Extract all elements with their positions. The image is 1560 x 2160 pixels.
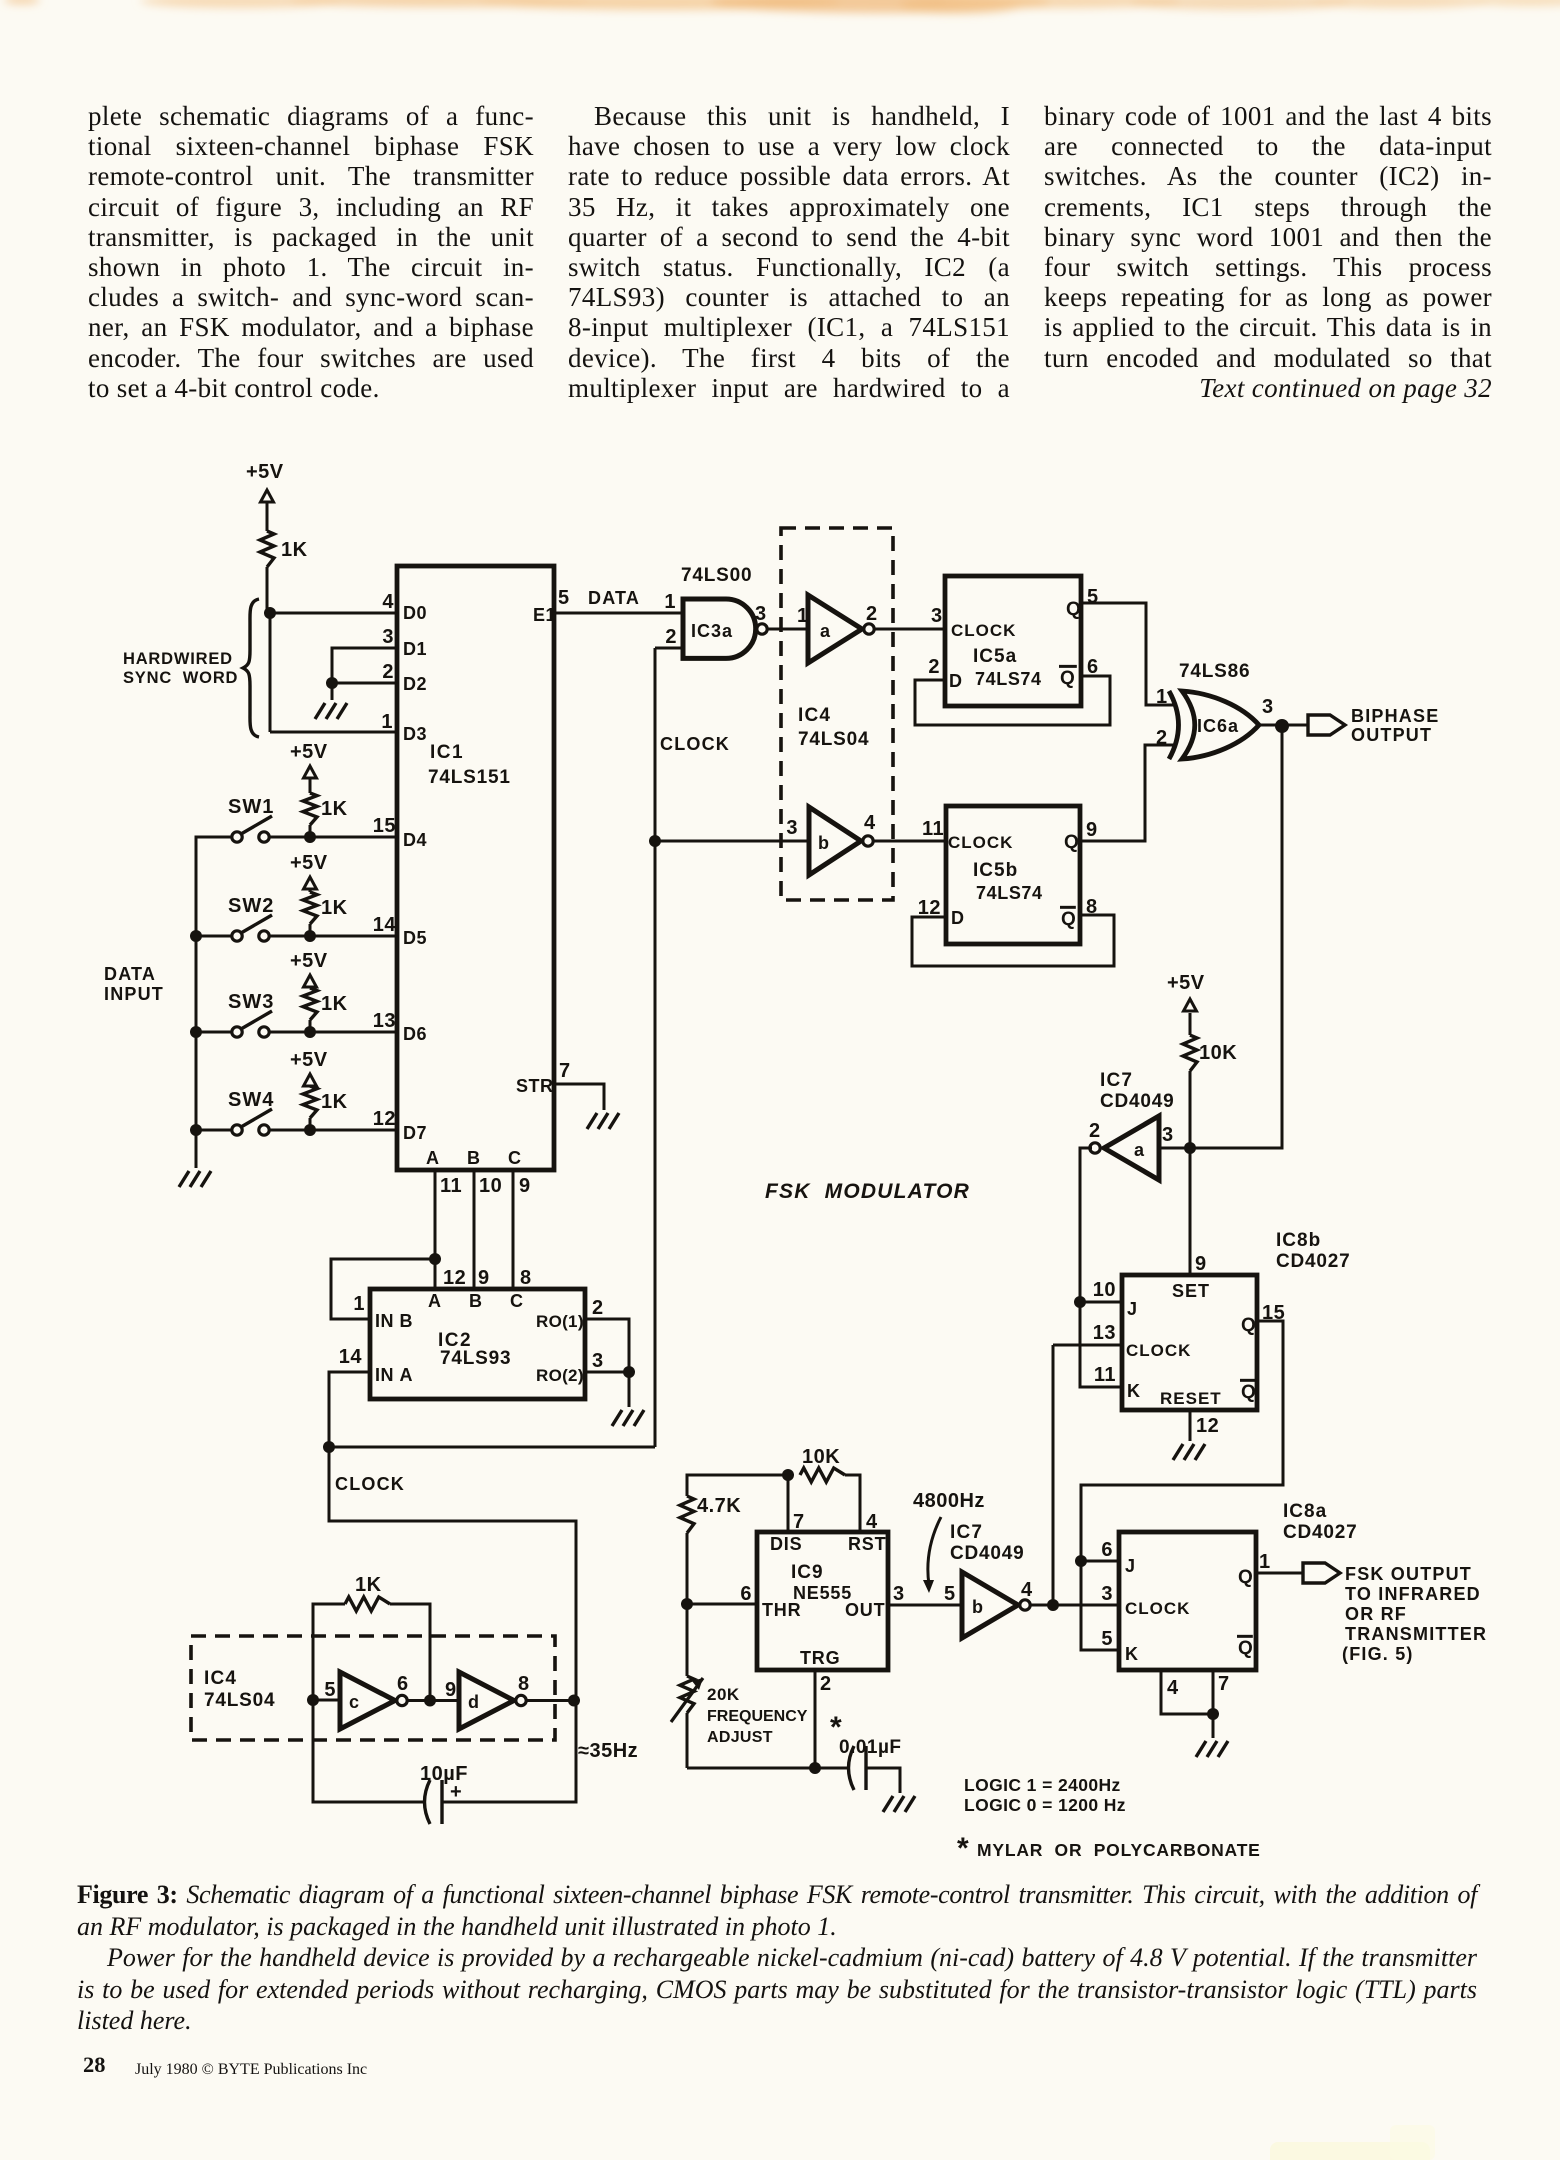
- svg-text:RO(2): RO(2): [536, 1366, 584, 1385]
- svg-text:7: 7: [559, 1060, 571, 1082]
- node IC8a J junction: [1075, 1555, 1087, 1567]
- xor gate IC6a: [1169, 691, 1259, 759]
- wire pot to TRG node: [687, 1767, 815, 1770]
- svg-text:SYNC WORD: SYNC WORD: [123, 669, 238, 687]
- svg-text:+: +: [450, 1781, 462, 1803]
- svg-text:IC9: IC9: [791, 1562, 824, 1583]
- flip-flop IC8a CD4027: [1119, 1532, 1256, 1670]
- svg-text:IC4: IC4: [798, 705, 831, 726]
- svg-text:4: 4: [1021, 1579, 1033, 1601]
- wire 10K to RST pin 4: [845, 1475, 860, 1532]
- label 74LS00: [681, 565, 752, 586]
- svg-text:74LS04: 74LS04: [204, 1690, 275, 1711]
- pin number 6 (IC5a Qbar): [1087, 656, 1099, 678]
- svg-text:11: 11: [922, 818, 944, 840]
- svg-text:OR RF: OR RF: [1345, 1604, 1407, 1624]
- wire IC8a pin 4 to ground: [1161, 1670, 1213, 1714]
- svg-text:1K: 1K: [321, 897, 348, 919]
- node clock junction at IN A: [323, 1441, 335, 1453]
- svg-text:2: 2: [928, 656, 940, 678]
- pin number 8 (IC2 C): [520, 1267, 532, 1289]
- pin number 5 (IC7b): [944, 1583, 956, 1605]
- node 10K-DIS junction: [782, 1469, 794, 1481]
- svg-text:TRANSMITTER: TRANSMITTER: [1345, 1624, 1487, 1644]
- svg-text:TRG: TRG: [800, 1648, 840, 1668]
- pin number 9 (IC2 B): [478, 1267, 490, 1289]
- wire IC2 IN A to clock node: [329, 1372, 370, 1447]
- label IC7 CD4049: [1100, 1070, 1175, 1112]
- page footer: [83, 2052, 106, 2078]
- svg-text:5: 5: [944, 1583, 956, 1605]
- pin number 1 (IC6a): [1156, 686, 1168, 708]
- svg-text:CD4027: CD4027: [1276, 1251, 1351, 1272]
- svg-text:4: 4: [864, 812, 876, 834]
- pin number 7 (IC9 DIS): [793, 1511, 805, 1533]
- svg-text:FREQUENCY: FREQUENCY: [707, 1708, 808, 1725]
- pin number 8 (IC5b Qbar): [1086, 896, 1098, 918]
- label DATA: [588, 588, 640, 608]
- wire IC4b out to IC5b clock: [873, 840, 946, 843]
- node bus SW3: [190, 1026, 202, 1038]
- ground (sync word D1 D2): [315, 703, 347, 719]
- svg-text:74LS00: 74LS00: [681, 565, 752, 586]
- wire node to IC1 pin 4 D0: [270, 612, 397, 615]
- resistor 1K pull-up for SW3: [303, 988, 348, 1032]
- connector FSK output flag: [1303, 1563, 1340, 1583]
- wire IC3a out to IC4a: [767, 628, 808, 631]
- wire RO(2) pin 3 to ground: [585, 1372, 629, 1407]
- node clock to FSK flip-flop branch: [649, 835, 661, 847]
- wire inverter c to d: [407, 1699, 459, 1702]
- node IC7a input junction: [1184, 1142, 1196, 1154]
- label FSK OUTPUT TO INFRARED OR RF TRANSMITTER (FIG. 5): [1342, 1564, 1487, 1664]
- ground (IC8b reset): [1173, 1444, 1205, 1460]
- node TRG junction: [809, 1762, 821, 1774]
- wire IC6a output: [1258, 724, 1308, 727]
- svg-text:IC7: IC7: [1100, 1070, 1133, 1091]
- svg-text:STR: STR: [516, 1076, 554, 1096]
- svg-text:D: D: [951, 908, 965, 928]
- pin number 2 (IC2 RO1): [592, 1297, 604, 1319]
- pin number 12 (IC8b RESET): [1196, 1415, 1219, 1437]
- resistor 1K pull-up for SW2: [303, 892, 348, 936]
- pin number 5 (IC5a Q): [1087, 586, 1099, 608]
- svg-text:IC8b: IC8b: [1276, 1230, 1321, 1251]
- svg-text:Q: Q: [1238, 1638, 1253, 1659]
- svg-text:15: 15: [373, 815, 396, 837]
- pin number 15 (IC1): [373, 815, 396, 837]
- wire SET pin 9 from node: [1189, 1148, 1192, 1275]
- svg-text:IC8a: IC8a: [1283, 1501, 1327, 1522]
- svg-text:10: 10: [1093, 1279, 1116, 1301]
- label 4800Hz: [913, 1490, 985, 1512]
- inverter IC4d: [459, 1672, 526, 1729]
- pin number 3 (IC2 RO2): [592, 1350, 604, 1372]
- label MYLAR OR POLYCARBONATE: [957, 1832, 1261, 1865]
- figure caption: [77, 1879, 1477, 2037]
- pin number 3 (IC7a): [1162, 1124, 1174, 1146]
- multiplexer IC1 74LS151: [397, 566, 556, 1170]
- svg-text:Q: Q: [1060, 668, 1075, 689]
- pin number 5 (IC8a K): [1101, 1628, 1113, 1650]
- svg-text:FSK OUTPUT: FSK OUTPUT: [1345, 1564, 1472, 1584]
- node IC8a ground junction: [1207, 1708, 1219, 1720]
- article text: column 3: [1044, 101, 1492, 403]
- pin number 1 (IC1 D3): [381, 711, 393, 733]
- node A line to IN B tap: [429, 1253, 441, 1265]
- wire biphase feedback down: [1190, 726, 1282, 1148]
- svg-text:74LS74: 74LS74: [976, 883, 1043, 903]
- wire address B IC1 pin 10 to IC2 pin 9: [473, 1170, 476, 1289]
- svg-text:1: 1: [353, 1293, 365, 1315]
- wire sync-word high rail down to D3: [269, 613, 272, 732]
- power +5V symbol (top left): [246, 461, 284, 531]
- pin number 4 (IC8a): [1167, 1677, 1179, 1699]
- svg-text:10K: 10K: [802, 1446, 840, 1468]
- timer IC9 NE555: [757, 1532, 888, 1670]
- pin number 3 (IC1 D1): [382, 626, 394, 648]
- wire address C IC1 pin 9 to IC2 pin 8: [512, 1170, 515, 1289]
- svg-text:4.7K: 4.7K: [697, 1495, 741, 1517]
- svg-text:74LS04: 74LS04: [798, 729, 869, 750]
- svg-text:DIS: DIS: [770, 1534, 802, 1554]
- node bus SW2: [190, 930, 202, 942]
- svg-text:11: 11: [1094, 1364, 1116, 1386]
- svg-text:b: b: [972, 1597, 984, 1617]
- svg-text:3: 3: [755, 603, 767, 625]
- wire IC5b D to Qbar loop: [912, 915, 1114, 966]
- node IC8b J junction: [1074, 1296, 1086, 1308]
- svg-text:*: *: [957, 1832, 969, 1865]
- svg-text:Q: Q: [1238, 1567, 1253, 1588]
- switch SW3: [196, 991, 397, 1037]
- pin number 2 (IC6a): [1156, 727, 1168, 749]
- svg-text:5: 5: [558, 587, 570, 609]
- svg-text:2: 2: [820, 1673, 832, 1695]
- node between c and d: [424, 1695, 436, 1707]
- wire OUT pin 3 to IC7b: [888, 1604, 962, 1607]
- pin number 1 (IC2 IN B): [353, 1293, 365, 1315]
- node D0HI junction: [264, 607, 276, 619]
- wire IC8a J pin 6: [1081, 1560, 1119, 1563]
- inverter IC4b: [809, 807, 873, 875]
- svg-text:K: K: [1125, 1644, 1139, 1664]
- wire 4.7K top leg: [687, 1475, 788, 1496]
- svg-text:1K: 1K: [321, 993, 348, 1015]
- svg-text:c: c: [349, 1692, 360, 1712]
- svg-text:1: 1: [664, 591, 676, 613]
- svg-text:6: 6: [1101, 1539, 1113, 1561]
- svg-text:D5: D5: [403, 928, 427, 948]
- pin number 8 (IC4d): [518, 1673, 530, 1695]
- svg-text:RESET: RESET: [1160, 1389, 1222, 1408]
- svg-text:CD4027: CD4027: [1283, 1522, 1358, 1543]
- svg-text:3: 3: [1101, 1583, 1113, 1605]
- resistor 1K feedback: [345, 1574, 390, 1611]
- svg-text:LOGIC 1 = 2400Hz: LOGIC 1 = 2400Hz: [964, 1775, 1121, 1795]
- svg-text:SET: SET: [1172, 1281, 1210, 1301]
- wire STR pin 7 to ground: [554, 1084, 604, 1110]
- svg-text:1K: 1K: [321, 798, 348, 820]
- pin number 3 (IC8a CLOCK): [1101, 1583, 1113, 1605]
- ground (STR): [587, 1113, 619, 1129]
- node SW2 pull-up junction: [304, 930, 316, 942]
- svg-text:D0: D0: [403, 603, 427, 623]
- svg-text:NE555: NE555: [793, 1583, 852, 1603]
- pin number 6 (IC9 THR): [740, 1583, 752, 1605]
- nand gate IC3a: [683, 599, 767, 658]
- svg-text:+5V: +5V: [290, 741, 328, 763]
- svg-text:D1: D1: [403, 639, 427, 659]
- pin number 4 (IC1 D0): [382, 591, 394, 613]
- wire IC8b J pin 10: [1080, 1301, 1122, 1304]
- inverter IC7a (points left): [1090, 1116, 1159, 1180]
- pin number 3 (IC4b): [786, 817, 798, 839]
- inverter IC7b: [962, 1572, 1030, 1638]
- svg-text:CD4049: CD4049: [950, 1543, 1025, 1564]
- wire IC8b Q to IC8a J: [1081, 1321, 1283, 1561]
- pin number 1 (IC3a): [664, 591, 676, 613]
- article text: column 2: [568, 101, 1010, 403]
- label IC8a CD4027: [1283, 1501, 1358, 1543]
- wire E1 DATA output to IC3a pin 1: [554, 612, 683, 615]
- svg-text:2: 2: [1156, 727, 1168, 749]
- svg-text:4: 4: [382, 591, 394, 613]
- svg-text:THR: THR: [762, 1600, 801, 1620]
- svg-text:CLOCK: CLOCK: [660, 734, 730, 754]
- svg-text:11: 11: [440, 1175, 462, 1197]
- pin number 1 (IC4a): [797, 605, 809, 627]
- svg-text:IC5a: IC5a: [973, 646, 1017, 667]
- svg-text:+5V: +5V: [290, 852, 328, 874]
- svg-text:74LS74: 74LS74: [975, 669, 1042, 689]
- svg-text:CLOCK: CLOCK: [948, 833, 1013, 852]
- svg-text:3: 3: [592, 1350, 604, 1372]
- svg-text:E1: E1: [533, 605, 556, 625]
- svg-text:14: 14: [373, 914, 397, 936]
- resistor R 4.7K: [680, 1495, 741, 1604]
- svg-text:J: J: [1125, 1556, 1136, 1576]
- wire IC1 pin 2 D2 to ground stub: [332, 682, 397, 685]
- pin number 5 (IC4c): [324, 1679, 336, 1701]
- pin number 4 (IC7b): [1021, 1579, 1033, 1601]
- label FSK MODULATOR: [765, 1180, 970, 1203]
- node THR junction: [681, 1598, 693, 1610]
- label CLOCK (oscillator): [335, 1474, 405, 1494]
- wire IC8b clock pin 13: [1053, 1344, 1122, 1347]
- svg-text:OUT: OUT: [845, 1600, 885, 1620]
- pin number 9 (IC1 C): [519, 1175, 531, 1197]
- label SYNC WORD: [123, 669, 238, 687]
- pin number 2 (IC3a): [665, 626, 677, 648]
- wire IC8b K tie to J: [1080, 1302, 1122, 1387]
- inverter IC4c: [340, 1672, 407, 1729]
- node SW1 pull-up junction: [304, 831, 316, 843]
- power +5V for SW1: [290, 741, 328, 793]
- svg-text:10: 10: [479, 1175, 502, 1197]
- label 20K FREQUENCY ADJUST: [707, 1685, 808, 1746]
- svg-text:12: 12: [443, 1267, 466, 1289]
- pin number 2 (IC7a): [1089, 1120, 1101, 1142]
- resistor 1K pull-up for SW1: [303, 793, 348, 837]
- wire 10uF loop right: [442, 1701, 576, 1803]
- label LOGIC 1 = 2400Hz: [964, 1775, 1121, 1795]
- pin number 2 (IC9 TRG): [820, 1673, 832, 1695]
- wire IC7b out to IC8a clock: [1030, 1604, 1119, 1607]
- svg-text:IN B: IN B: [375, 1311, 413, 1331]
- pin number 14 (IC1): [373, 914, 397, 936]
- svg-text:9: 9: [445, 1679, 457, 1701]
- svg-text:3: 3: [893, 1583, 905, 1605]
- resistor 1K pull-up for SW4: [303, 1086, 348, 1130]
- flip-flop IC5a 74LS74: [945, 576, 1081, 706]
- svg-text:1: 1: [1156, 686, 1168, 708]
- svg-text:A: A: [426, 1148, 440, 1168]
- resistor R 10K (555): [800, 1446, 845, 1482]
- svg-text:ADJUST: ADJUST: [707, 1729, 773, 1746]
- svg-text:4: 4: [1167, 1677, 1179, 1699]
- wire osc input node to inverter c: [313, 1699, 340, 1702]
- label DATA INPUT: [104, 964, 164, 1004]
- svg-text:IC7: IC7: [950, 1522, 983, 1543]
- svg-text:3: 3: [786, 817, 798, 839]
- svg-text:1: 1: [797, 605, 809, 627]
- wire R1 bottom to node D0HI: [266, 567, 269, 613]
- pin number 14 (IC2 IN A): [339, 1346, 363, 1368]
- article text: column 1: [88, 101, 534, 403]
- pin number 7 (IC1 STR): [559, 1060, 571, 1082]
- dashed box IC4 oscillator section: [191, 1636, 555, 1740]
- label IC4 (modulator): [798, 705, 831, 726]
- svg-text:8: 8: [520, 1267, 532, 1289]
- svg-text:CLOCK: CLOCK: [335, 1474, 405, 1494]
- svg-text:DATA: DATA: [588, 588, 640, 608]
- svg-text:Q: Q: [1241, 1315, 1256, 1336]
- wire IC7a output down to IC8b J: [1080, 1148, 1092, 1302]
- label 74LS04 (oscillator): [204, 1690, 275, 1711]
- svg-text:D2: D2: [403, 674, 427, 694]
- wire IC8b clock down to IC7b out: [1052, 1345, 1055, 1605]
- svg-text:IC1: IC1: [430, 742, 464, 763]
- connector biphase output flag: [1308, 715, 1345, 735]
- pin number 3 (IC6a): [1262, 696, 1274, 718]
- svg-text:3: 3: [1262, 696, 1274, 718]
- svg-text:D3: D3: [403, 724, 427, 744]
- node oscillator output: [568, 1695, 580, 1707]
- svg-text:SW3: SW3: [228, 991, 274, 1013]
- label IC8b CD4027: [1276, 1230, 1351, 1272]
- node SW3 pull-up junction: [304, 1026, 316, 1038]
- svg-text:CLOCK: CLOCK: [1125, 1599, 1190, 1618]
- svg-text:9: 9: [478, 1267, 490, 1289]
- svg-text:7: 7: [1218, 1673, 1230, 1695]
- wire 1K feedback left leg: [313, 1604, 345, 1700]
- wire 1K feedback right leg: [390, 1604, 430, 1700]
- pin number 5 (IC1 E1): [558, 587, 570, 609]
- svg-text:LOGIC 0 = 1200 Hz: LOGIC 0 = 1200 Hz: [964, 1795, 1126, 1815]
- power +5V for SW3: [290, 950, 328, 988]
- wire IC3a pin 2 from clock line: [655, 647, 683, 650]
- node D1-D2 ground junction: [326, 677, 338, 689]
- ground (IC2 reset): [612, 1410, 644, 1426]
- svg-text:(FIG. 5): (FIG. 5): [1342, 1644, 1414, 1664]
- svg-text:1: 1: [381, 711, 393, 733]
- wire A-line tap to IC2 IN B pin 1: [331, 1259, 435, 1319]
- svg-text:2: 2: [592, 1297, 604, 1319]
- svg-text:2: 2: [665, 626, 677, 648]
- label HARDWIRED: [123, 650, 233, 668]
- svg-text:20K: 20K: [707, 1685, 740, 1704]
- svg-text:A: A: [428, 1291, 442, 1311]
- pin number 11 (IC5b clock): [922, 818, 944, 840]
- wire 10uF loop left: [313, 1700, 424, 1802]
- bottom-right faint yellow scan blobs: [1270, 2142, 1430, 2160]
- svg-text:INPUT: INPUT: [104, 984, 164, 1004]
- svg-text:Q: Q: [1064, 832, 1079, 853]
- wire inverter d output to node: [526, 1699, 576, 1702]
- wire IC5a D to Qbar loop: [915, 676, 1110, 725]
- svg-text:a: a: [1134, 1140, 1145, 1160]
- svg-text:12: 12: [373, 1108, 396, 1130]
- brace for hardwired sync word: [243, 599, 259, 737]
- pin number 10 (IC1 B): [479, 1175, 502, 1197]
- pin number 3 (IC3a): [755, 603, 767, 625]
- svg-text:+5V: +5V: [1167, 972, 1205, 994]
- svg-text:13: 13: [1093, 1322, 1116, 1344]
- label approx 35Hz: [578, 1740, 638, 1762]
- wire THR pin 6: [687, 1603, 757, 1606]
- power +5V (FSK modulator): [1167, 972, 1205, 1035]
- svg-text:+5V: +5V: [290, 1049, 328, 1071]
- ground (data input bus): [179, 1171, 211, 1187]
- svg-text:J: J: [1127, 1299, 1138, 1319]
- pin number 12 (IC2 A): [443, 1267, 466, 1289]
- svg-text:CLOCK: CLOCK: [951, 621, 1016, 640]
- svg-text:IN A: IN A: [375, 1365, 413, 1385]
- pin number 1 (IC8a Q): [1259, 1551, 1271, 1573]
- pin number 9 (IC4d): [445, 1679, 457, 1701]
- svg-text:BIPHASE: BIPHASE: [1351, 706, 1439, 726]
- wire IC7a input from node: [1159, 1147, 1190, 1150]
- svg-text:D: D: [949, 671, 963, 691]
- wire IC5b Q to XOR pin 2: [1080, 745, 1177, 841]
- svg-text:B: B: [469, 1291, 483, 1311]
- svg-text:SW4: SW4: [228, 1089, 274, 1111]
- node oscillator input: [307, 1694, 319, 1706]
- wire IC4a out to IC5a clock: [874, 628, 945, 631]
- svg-text:+5V: +5V: [246, 461, 284, 483]
- pin number 12 (IC1): [373, 1108, 396, 1130]
- pin number 7 (IC8a): [1218, 1673, 1230, 1695]
- pin number 11 (IC1 A): [440, 1175, 462, 1197]
- wire IC8b reset pin 12 to ground: [1189, 1410, 1192, 1441]
- wire IC8a K tie to J: [1081, 1561, 1119, 1650]
- inverter IC4a: [808, 595, 874, 663]
- wire address A IC1 pin 11 to IC2 pin 12: [434, 1170, 437, 1289]
- wire clock node to main clock line: [329, 1446, 655, 1449]
- capacitor C2 0.01uF: [815, 1711, 902, 1793]
- svg-text:9: 9: [519, 1175, 531, 1197]
- svg-text:14: 14: [339, 1346, 363, 1368]
- svg-text:5: 5: [324, 1679, 336, 1701]
- pin number 4 (IC4b): [864, 812, 876, 834]
- svg-text:Q: Q: [1066, 599, 1081, 620]
- pin number 13 (IC1): [373, 1010, 396, 1032]
- node bus SW4: [190, 1124, 202, 1136]
- label IC4 (oscillator): [204, 1668, 237, 1689]
- node biphase output junction: [1275, 719, 1289, 733]
- svg-text:74LS151: 74LS151: [428, 767, 511, 788]
